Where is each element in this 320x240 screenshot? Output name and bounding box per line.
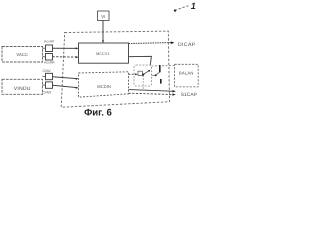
- svg-text:S1CAP: S1CAP: [181, 92, 197, 98]
- svg-text:MCDIN: MCDIN: [97, 84, 111, 89]
- svg-text:MCCV1: MCCV1: [96, 52, 109, 56]
- svg-text:CIAR: CIAR: [43, 91, 52, 95]
- svg-text:AccAV: AccAV: [44, 40, 55, 44]
- svg-text:1: 1: [191, 1, 196, 11]
- svg-text:DICAP: DICAP: [178, 42, 196, 48]
- svg-text:VI: VI: [101, 14, 105, 19]
- svg-text:BALAN: BALAN: [179, 70, 194, 75]
- svg-text:CIAV: CIAV: [43, 69, 52, 73]
- svg-text:VINDU: VINDU: [14, 86, 31, 92]
- svg-text:VACC: VACC: [16, 52, 28, 57]
- svg-text:AccAR: AccAR: [44, 61, 55, 65]
- svg-text:Фиг. 6: Фиг. 6: [84, 108, 112, 119]
